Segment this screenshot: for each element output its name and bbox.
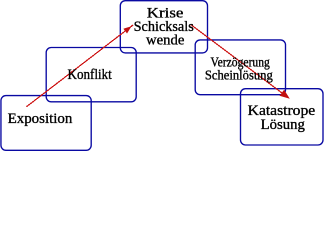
box Konflikt [46, 48, 136, 102]
arrowhead rising [123, 26, 131, 33]
svg-text:Lösung: Lösung [261, 117, 306, 133]
svg-text:Konflikt: Konflikt [68, 67, 113, 83]
arrow falling Krise to Katastrope [191, 25, 284, 94]
box Krise [120, 1, 207, 53]
arrowhead falling [280, 90, 290, 99]
box Katastrope [241, 89, 324, 145]
arrow rising Exposition to Krise [27, 25, 134, 107]
svg-text:wende: wende [146, 32, 185, 48]
box Exposition [1, 96, 91, 151]
svg-text:Scheinlösung: Scheinlösung [205, 67, 273, 82]
svg-text:Exposition: Exposition [8, 111, 73, 127]
box Verzoegerung [195, 40, 285, 95]
